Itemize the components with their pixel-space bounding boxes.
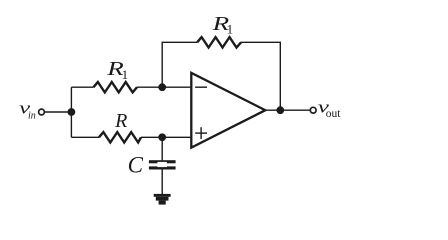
capacitor C plates <box>149 160 176 169</box>
svg-text:out: out <box>326 108 342 120</box>
node A: inverting input junction <box>158 83 166 91</box>
wire: feedback down to output node <box>279 42 281 110</box>
resistor R (non-inverting path) <box>99 132 141 142</box>
svg-text:R: R <box>114 110 127 132</box>
wire: R1 row right stub to node A <box>137 86 162 88</box>
node B: non-inverting input junction <box>158 133 166 141</box>
wire: feedback row right stub <box>241 41 281 43</box>
wire: node B to op-amp non-inverting input <box>162 136 190 138</box>
svg-text:C: C <box>128 152 144 177</box>
input terminal (open circle) <box>39 109 45 115</box>
wire: node A up to feedback row <box>161 42 163 87</box>
svg-text:1: 1 <box>122 68 129 82</box>
op-amp U1 <box>191 73 265 148</box>
svg-text:1: 1 <box>227 22 234 36</box>
wire: R row left stub <box>71 136 99 138</box>
wire: node A to op-amp inverting input <box>162 86 190 88</box>
wire: node B down to capacitor <box>161 137 163 160</box>
wire: input terminal to input node <box>45 111 72 113</box>
capacitor center notch <box>157 162 167 167</box>
wire: op-amp output to output terminal <box>265 109 310 111</box>
op-amp minus input sign <box>195 86 207 88</box>
node: output junction <box>276 106 284 114</box>
svg-text:in: in <box>28 111 36 122</box>
node: input junction <box>68 108 76 116</box>
output terminal (open circle) <box>310 107 316 113</box>
ground <box>154 194 171 205</box>
wire: capacitor to ground <box>161 169 163 194</box>
resistor R1 (feedback) <box>197 37 241 47</box>
wire: R row right stub to node B <box>141 136 162 138</box>
resistor R1 (input, inverting path) <box>94 82 138 92</box>
wire: left vertical between R1 and R rows <box>70 87 72 137</box>
wire: feedback row left stub <box>162 41 198 43</box>
op-amp plus input sign <box>195 127 207 139</box>
wire: R1 row left stub <box>71 86 93 88</box>
